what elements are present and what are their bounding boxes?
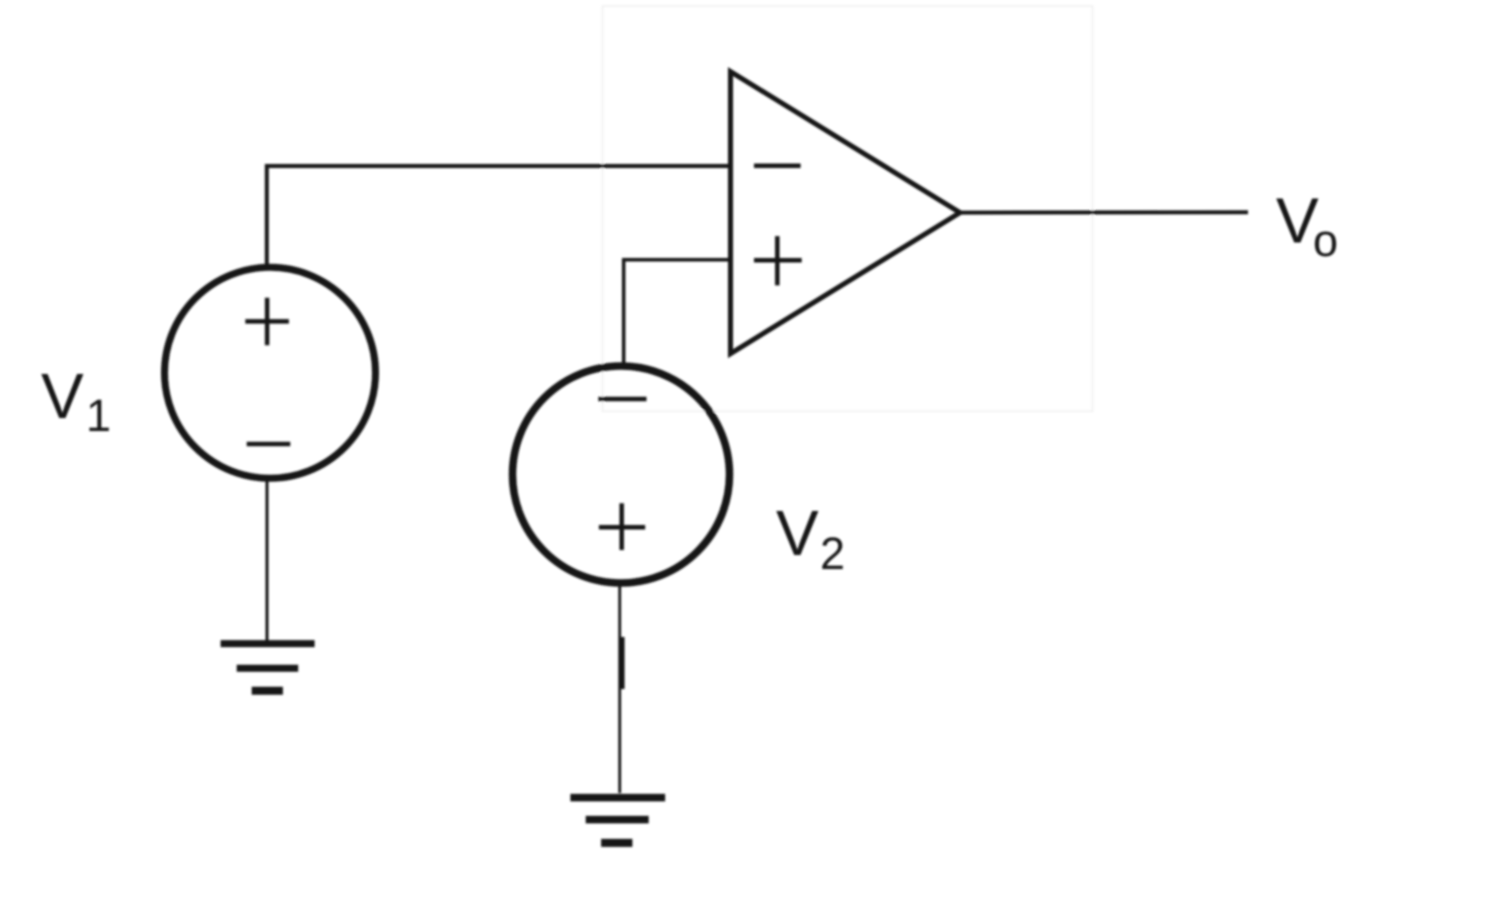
wire overlap segment (darker) — [620, 637, 625, 689]
svg-text:o: o — [1313, 215, 1338, 266]
svg-text:V: V — [41, 360, 84, 432]
placeholder frame (faint) — [603, 6, 1093, 411]
V1 plus mark — [245, 298, 289, 346]
output wire — [960, 210, 1248, 214]
ground (V1) — [221, 644, 315, 691]
op-amp inverting pin label - — [754, 163, 801, 168]
V2 minus mark — [598, 397, 646, 402]
V2 plus mark — [599, 503, 645, 550]
voltage source V1 — [165, 267, 376, 478]
svg-text:2: 2 — [820, 528, 845, 579]
svg-text:V: V — [776, 497, 819, 569]
wire V2 top to non-inverting input — [624, 260, 732, 364]
ground (V2) — [570, 798, 665, 843]
wire V2 bottom to ground — [618, 586, 621, 793]
op-amp non-inverting pin label + — [754, 236, 802, 285]
svg-text:1: 1 — [86, 390, 111, 441]
wire V1 top to inverting input — [267, 166, 732, 266]
wire V1 bottom to ground — [266, 479, 269, 641]
op-amp U1 — [731, 72, 961, 354]
V1 minus mark — [247, 442, 291, 447]
voltage source V2 — [513, 366, 730, 583]
